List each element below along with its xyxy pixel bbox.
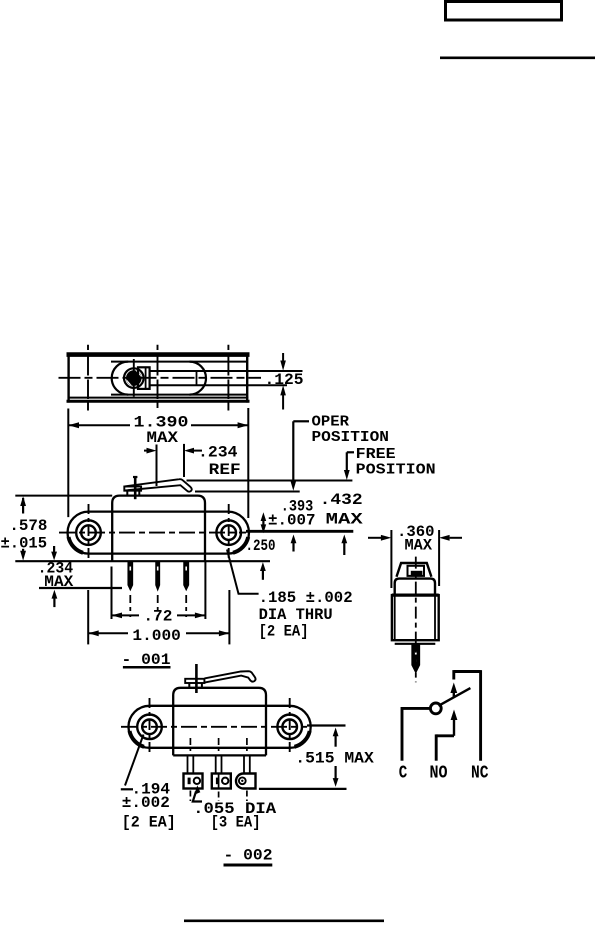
NO contact arrow (up) (451, 710, 458, 721)
slot obround left arc (112, 362, 128, 395)
svg-text:±.015: ±.015 (1, 534, 48, 552)
free position line (187, 480, 353, 482)
svg-text:.578: .578 (9, 517, 47, 535)
wire: NO horizontal (436, 734, 454, 737)
svg-text:C: C (399, 764, 408, 784)
lever pad (124, 487, 141, 491)
solder lug 3 (236, 774, 256, 789)
top view body outline: bottom double edge (68, 397, 249, 399)
wire: C vertical (401, 707, 404, 761)
terminal centerlines below (129, 595, 131, 617)
inner vertical lines (394, 595, 396, 640)
.234 MAX dimension (left, terminals) (39, 546, 122, 607)
right hole vertical centerline (228, 504, 230, 561)
dimension line with outward arrows (88, 632, 128, 634)
solder lug 2 (212, 774, 231, 789)
body bottom line (173, 754, 266, 756)
switch body outline (173, 688, 266, 756)
title block separator line (440, 56, 595, 59)
slot obround top line (111, 361, 247, 363)
right ear ring (277, 715, 302, 740)
svg-text:REF: REF (209, 461, 241, 479)
terminal tip line (39, 587, 122, 589)
svg-text:[3 EA]: [3 EA] (211, 813, 261, 831)
svg-text:.234: .234 (198, 444, 238, 462)
.360 MAX dimension arrows (368, 537, 381, 539)
wire: NC vertical (479, 670, 482, 761)
plunger head square (top view) (138, 367, 150, 389)
svg-text:.250: .250 (246, 537, 276, 555)
down arrow above body bottom line (53, 546, 55, 554)
FREE POSITION leader (344, 452, 354, 480)
bottom second line (395, 643, 436, 645)
extension lines (hole centers) (87, 590, 89, 644)
svg-text:POSITION: POSITION (312, 430, 390, 446)
FRONT VIEW -001 (15, 476, 353, 617)
flange horizontal centerline (dashed) (121, 726, 307, 728)
dimension line right segment (191, 424, 248, 426)
top view body outline: left edge (67, 353, 69, 403)
terminal stem 1 (187, 755, 189, 772)
svg-text:NO: NO (430, 764, 448, 784)
right ear hole (221, 525, 236, 540)
plunger pin (nail) on top (195, 664, 198, 693)
.055 leader (193, 785, 202, 801)
terminal blade 2 (156, 561, 159, 589)
plunger cap inner rect (408, 566, 425, 576)
.250 dimension arrows (260, 535, 347, 580)
lever end cap (196, 371, 198, 385)
left ear hole (81, 525, 96, 540)
right ear hole (282, 720, 297, 735)
right ear shadow arc (295, 731, 310, 747)
1.000 dimension (88, 590, 229, 644)
left arrow tail (144, 450, 149, 452)
lever pad legs (126, 491, 128, 496)
double arrow under .393 text (261, 512, 267, 521)
left ear ring (137, 715, 162, 740)
plunger circle dark fill with white slivers (126, 370, 142, 386)
lever pad (185, 679, 204, 683)
lever pad legs (188, 683, 190, 688)
top extension line (flange centerline level) (307, 724, 346, 726)
wire: NC contact stub (452, 670, 455, 679)
svg-text:.515 MAX: .515 MAX (295, 750, 374, 768)
OPER POSITION leader (290, 421, 309, 490)
slot obround bottom line (111, 394, 247, 396)
dimension 1.390 MAX (68, 408, 248, 518)
extension line (lever bend) (183, 444, 185, 477)
right arrow with tail (191, 450, 202, 452)
svg-text:MAX: MAX (44, 573, 73, 591)
oper position line (195, 491, 300, 493)
lever seen from top: bottom edge (150, 384, 287, 386)
terminal blade (black) (412, 645, 419, 673)
left ear shadow arc (130, 731, 145, 747)
mounting flange (stadium) (129, 706, 311, 748)
extension lines (body sides) (111, 567, 113, 620)
hole vertical centerlines (149, 698, 151, 755)
bottom border line of page (184, 919, 384, 922)
horizontal centerline of top view (59, 377, 262, 379)
svg-text:[2 EA]: [2 EA] (122, 813, 176, 831)
terminal stem 3 (243, 755, 245, 772)
dimension line left segment (68, 424, 130, 426)
up arrow for .432 at mounting plane (341, 535, 347, 544)
svg-text:±.002: ±.002 (122, 794, 170, 812)
svg-text:DIA THRU: DIA THRU (259, 606, 333, 624)
dimension line with outward arrows (112, 614, 140, 616)
svg-text:±.007: ±.007 (268, 511, 316, 529)
plunger cap trapezoid (397, 563, 432, 577)
title block box (top right) (446, 2, 562, 21)
vertical centerline: body center (157, 345, 159, 408)
lever arm (diagonal) (439, 688, 471, 706)
right ear shadow arc (thick lower-right) (233, 537, 248, 553)
svg-text:OPER: OPER (312, 415, 350, 431)
bottom extension line (lug bottom) (259, 788, 347, 790)
plunger pin (nail) on top (134, 476, 137, 499)
svg-text:.125: .125 (265, 371, 304, 389)
right arrowhead (238, 422, 249, 428)
SCHEMATIC (402, 670, 481, 761)
svg-text:MAX: MAX (326, 510, 364, 528)
svg-text:.72: .72 (143, 608, 172, 626)
TOP VIEW of switch (59, 345, 303, 411)
left arrowhead (68, 422, 79, 428)
svg-text:- 002: - 002 (224, 846, 273, 864)
upper body (rounded shoulders) (395, 579, 435, 596)
wire: C horizontal (402, 707, 430, 710)
up arrow (333, 728, 339, 737)
up arrow at body bottom line (below .250 text) (260, 562, 266, 571)
terminal stem 2 (215, 755, 217, 772)
lever (side profile) (204, 671, 255, 682)
vertical centerline (415, 557, 417, 683)
terminal blade highlights (129, 567, 131, 571)
plunger circle (top view) (124, 368, 144, 388)
up arrow below terminal tip line (52, 590, 58, 599)
wire: NC top horizontal (454, 670, 481, 673)
svg-text:[2 EA]: [2 EA] (259, 623, 309, 641)
BOTTOM VIEW -002 (121, 664, 311, 801)
svg-text:POSITION: POSITION (356, 463, 436, 479)
.194 leader (121, 735, 144, 790)
dimension line vertical with arrows (282, 353, 284, 363)
.578 dimension (20, 496, 26, 560)
top view body outline: thick top edge (67, 352, 250, 357)
.185 DIA THRU leader (227, 550, 259, 594)
wire: NO vertical (435, 734, 438, 760)
NC contact arrow (up) (450, 683, 457, 694)
dimension .234 REF (144, 444, 202, 486)
dimension .125 (lever thickness, top view) (280, 353, 286, 410)
svg-text:MAX: MAX (147, 429, 179, 447)
lever (side profile) (125, 479, 192, 492)
terminal blade highlight (415, 652, 417, 655)
lever seen from top: top edge (150, 370, 303, 372)
right ear ring (216, 520, 241, 545)
left ear hole (142, 720, 157, 735)
svg-text:FREE: FREE (356, 447, 396, 463)
.72 dimension (112, 562, 206, 619)
.515 MAX dimension (259, 726, 347, 789)
SIDE VIEW (368, 530, 462, 682)
pivot circle (430, 703, 441, 714)
svg-text:NC: NC (471, 764, 489, 784)
mounting flange (stadium) (68, 512, 249, 554)
left ear ring (76, 520, 101, 545)
flange horizontal centerline (dashed) (59, 532, 246, 534)
left ear shadow arc (thick lower-left) (69, 537, 84, 553)
svg-text:.432: .432 (320, 491, 363, 509)
plunger head inner line (145, 367, 147, 389)
slot obround right arc (190, 362, 207, 395)
svg-text:MAX: MAX (405, 537, 433, 555)
solder lug 1 (184, 774, 203, 789)
switch body outline (112, 496, 205, 562)
terminal blade 1 (128, 561, 132, 589)
extension line (body center) (156, 445, 158, 487)
left hole vertical centerline (88, 504, 90, 561)
vertical centerline: plunger (133, 359, 135, 397)
vertical centerline: left hole (87, 345, 89, 411)
right extension line (247, 408, 249, 518)
body top extension line (left, for .578) (15, 495, 112, 497)
main body rect (392, 595, 439, 640)
svg-text:.185 ±.002: .185 ±.002 (259, 589, 353, 607)
terminal centerlines (189, 738, 191, 754)
body bottom line extended (left for .578, right for .250) (15, 560, 270, 562)
up arrow at mounting plane (right of .250 text) (291, 535, 297, 544)
dimension .393 +-.007 arrows (261, 512, 267, 533)
mounting plane line extended right (solid thick) (246, 530, 353, 533)
plunger cap black center (411, 571, 423, 577)
.360 MAX extension lines (390, 530, 392, 588)
left extension line (67, 409, 69, 518)
top view body outline: right edge (246, 353, 248, 403)
down arrow (335, 766, 337, 783)
svg-text:1.000: 1.000 (132, 627, 181, 645)
terminal blade 3 (184, 561, 188, 589)
vertical centerline: right hole (227, 345, 229, 411)
